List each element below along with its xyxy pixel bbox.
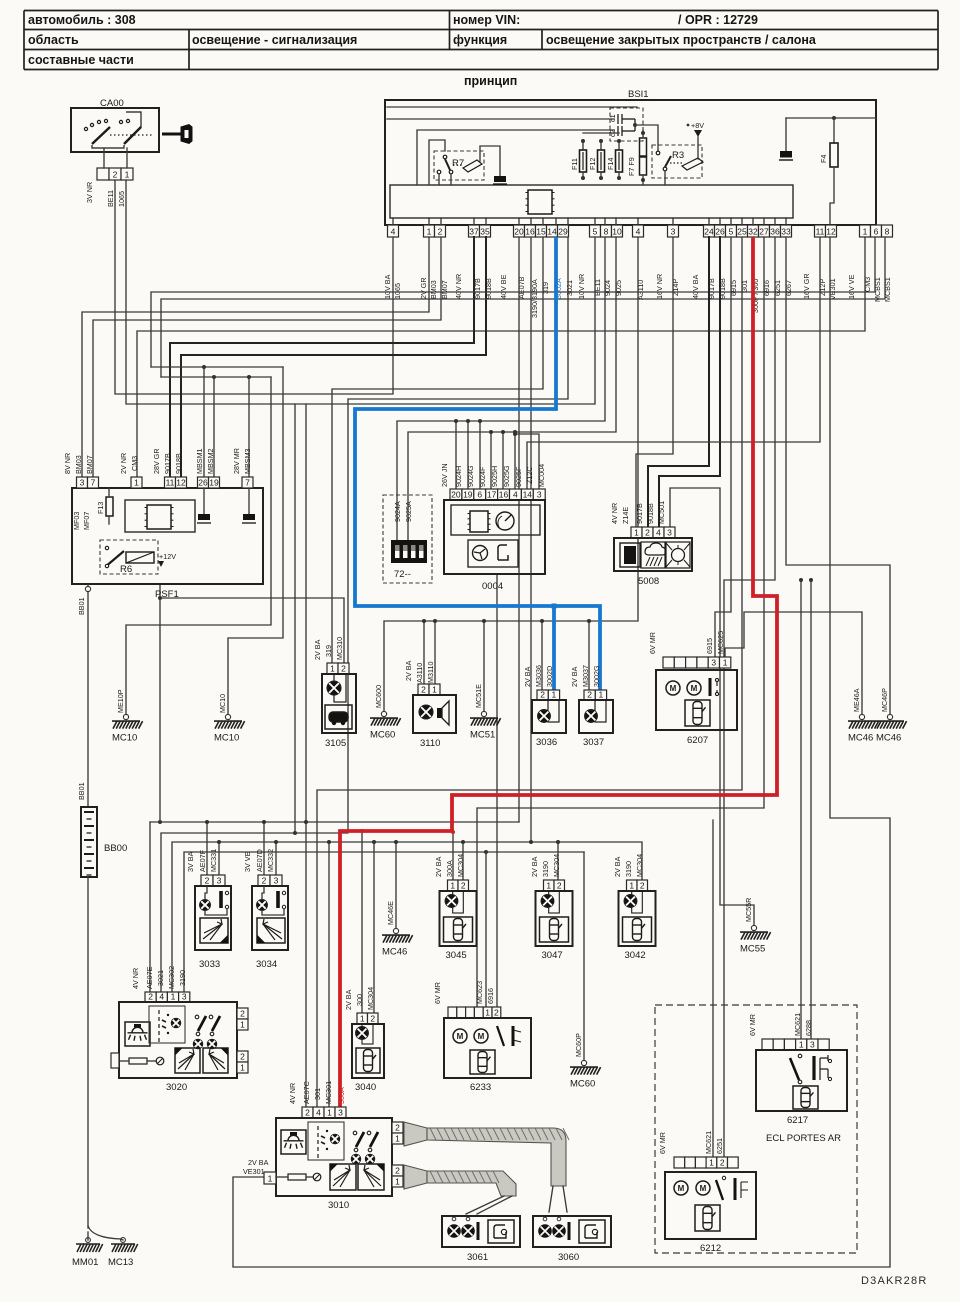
svg-text:2V NR: 2V NR <box>119 453 128 474</box>
svg-text:8: 8 <box>885 226 890 236</box>
ground MC51 <box>481 711 486 716</box>
svg-text:3: 3 <box>537 489 542 499</box>
svg-text:1: 1 <box>268 1173 273 1183</box>
svg-text:AE07F: AE07F <box>198 849 207 872</box>
5008 sun icon <box>666 542 690 568</box>
svg-text:F13: F13 <box>96 502 105 514</box>
5008 chip icon <box>620 543 640 567</box>
svg-text:BM03: BM03 <box>74 455 83 474</box>
svg-text:F11: F11 <box>570 158 579 170</box>
svg-text:5008: 5008 <box>638 576 659 587</box>
svg-text:составные части: составные части <box>28 53 134 67</box>
svg-text:Z12C: Z12C <box>525 466 534 484</box>
ground MC55 <box>751 925 756 930</box>
relay R3 in BSI1 <box>652 145 702 178</box>
svg-text:MC46: MC46 <box>382 947 407 958</box>
relay R6 in PSF1 <box>100 540 158 574</box>
svg-text:10: 10 <box>612 226 622 236</box>
svg-text:12: 12 <box>176 477 186 487</box>
svg-text:1: 1 <box>799 1039 804 1049</box>
ignition switch CA00 <box>71 108 159 152</box>
svg-text:6207: 6207 <box>687 735 708 746</box>
svg-text:2: 2 <box>494 1007 499 1017</box>
svg-text:M: M <box>670 684 677 693</box>
svg-text:1: 1 <box>134 477 139 487</box>
motor in 6207 <box>687 681 701 695</box>
svg-text:2: 2 <box>113 169 118 179</box>
svg-text:2: 2 <box>370 1013 375 1023</box>
motor in 6207 <box>666 681 680 695</box>
svg-text:3: 3 <box>711 657 716 667</box>
svg-text:2: 2 <box>640 880 645 890</box>
svg-text:F14: F14 <box>606 158 615 170</box>
svg-text:MF03: MF03 <box>72 512 81 530</box>
svg-text:16: 16 <box>525 226 535 236</box>
wire BM07: BSI pin 2 to PSF1 pin 7 <box>93 237 441 477</box>
svg-text:6: 6 <box>874 226 879 236</box>
svg-text:1: 1 <box>485 1007 490 1017</box>
svg-text:3040: 3040 <box>355 1082 376 1093</box>
svg-text:Z14E: Z14E <box>621 507 630 524</box>
svg-text:3110: 3110 <box>420 738 440 749</box>
svg-text:1: 1 <box>599 689 604 699</box>
svg-text:/ OPR : 12729: / OPR : 12729 <box>678 13 758 27</box>
svg-text:2: 2 <box>461 880 466 890</box>
wire MBSM1 bus <box>151 366 283 368</box>
svg-text:20: 20 <box>514 226 524 236</box>
wire CM3: BSI to PSF1 pin 1 <box>137 237 865 477</box>
svg-text:3002G: 3002G <box>592 665 601 687</box>
switch area 3020 <box>149 1006 185 1043</box>
svg-text:20: 20 <box>451 489 461 499</box>
svg-text:2V BA: 2V BA <box>434 856 443 877</box>
svg-text:33: 33 <box>781 226 791 236</box>
svg-text:4: 4 <box>391 226 396 236</box>
svg-text:F12: F12 <box>588 158 597 170</box>
svg-text:2: 2 <box>240 1051 245 1061</box>
svg-text:24: 24 <box>704 226 714 236</box>
wire MC302/MC301 bus <box>172 842 642 992</box>
ground MC10 second <box>225 714 230 719</box>
svg-text:M3036: M3036 <box>534 665 543 687</box>
svg-text:MC46E: MC46E <box>386 901 395 925</box>
svg-text:2: 2 <box>557 880 562 890</box>
svg-text:2: 2 <box>262 875 267 885</box>
svg-text:1: 1 <box>395 1133 400 1143</box>
svg-text:9025A: 9025A <box>404 501 413 522</box>
svg-text:M: M <box>700 1184 707 1193</box>
svg-text:72--: 72-- <box>394 569 411 580</box>
svg-text:3034: 3034 <box>256 959 277 970</box>
wire MC625: 6207 to ground MC46 <box>725 612 862 714</box>
ground MC60 <box>381 711 386 716</box>
svg-text:MC46: MC46 <box>876 733 901 744</box>
red wire 300F/300: BSI pin 32 to 3010 pin 3 <box>340 237 777 1107</box>
svg-text:2: 2 <box>240 1008 245 1018</box>
svg-text:3: 3 <box>338 1107 343 1117</box>
svg-text:28V GR: 28V GR <box>152 448 161 474</box>
wire 301: BSI pin 25 to 3010 <box>317 237 742 1107</box>
svg-text:R6: R6 <box>120 564 132 575</box>
spot lamp 3034 <box>258 875 270 886</box>
svg-text:3: 3 <box>274 875 279 885</box>
rear lock unit 6212 <box>674 1157 685 1168</box>
svg-text:3: 3 <box>810 1039 815 1049</box>
under-bonnet fuse box PSF1 <box>72 488 263 584</box>
svg-text:MC004: MC004 <box>537 464 546 487</box>
wire MC623: 6233 to ground MC60P <box>485 852 487 1007</box>
svg-text:6915: 6915 <box>705 638 714 654</box>
blue wire branch 3002D to 3036 <box>552 606 556 690</box>
svg-text:9018B: 9018B <box>646 503 655 524</box>
svg-text:7: 7 <box>91 477 96 487</box>
svg-text:BSI1: BSI1 <box>628 89 649 100</box>
svg-text:10V NR: 10V NR <box>577 274 586 299</box>
svg-text:MC623: MC623 <box>475 981 484 1004</box>
ground MC46E <box>393 928 398 933</box>
svg-text:VE301: VE301 <box>243 1167 265 1176</box>
svg-text:26: 26 <box>715 226 725 236</box>
svg-text:3190: 3190 <box>178 970 187 986</box>
wire BB01 PSF1 to battery unit BB00 <box>85 586 90 591</box>
motor in 6212 <box>674 1181 688 1195</box>
svg-text:9024F: 9024F <box>478 466 487 487</box>
svg-text:PSF1: PSF1 <box>155 589 179 600</box>
wire 3190: BSI pin 16 riser <box>530 237 532 842</box>
svg-text:6: 6 <box>477 489 482 499</box>
front courtesy unit 3020 <box>145 992 156 1002</box>
svg-text:BB01: BB01 <box>77 597 86 615</box>
wire 300A branch to 3045 <box>452 833 454 880</box>
svg-text:R3: R3 <box>672 150 684 161</box>
svg-text:2V BA: 2V BA <box>344 989 353 1010</box>
rear courtesy unit 3010 <box>302 1107 313 1118</box>
svg-text:MC332: MC332 <box>266 849 275 872</box>
svg-text:1: 1 <box>552 689 557 699</box>
boot lamp 3040 <box>357 1013 368 1024</box>
svg-text:функция: функция <box>453 33 507 47</box>
+8V supply <box>687 124 690 127</box>
svg-text:17: 17 <box>487 489 497 499</box>
svg-text:319: 319 <box>324 645 333 657</box>
svg-text:MC51: MC51 <box>470 730 495 741</box>
svg-text:2: 2 <box>438 226 443 236</box>
svg-text:1: 1 <box>629 880 634 890</box>
wire CA00 to connector <box>126 148 128 168</box>
svg-text:MC46P: MC46P <box>880 688 889 712</box>
svg-text:MC55: MC55 <box>740 944 765 955</box>
svg-text:2: 2 <box>587 689 592 699</box>
svg-text:3047: 3047 <box>542 950 563 961</box>
svg-text:MC304: MC304 <box>635 854 644 877</box>
wire 3021: BSI pin 29 to 3020 <box>161 237 568 992</box>
PSF1 pin connectors <box>77 477 88 488</box>
svg-text:8: 8 <box>604 226 609 236</box>
wire MC004 run 0004 to 6233 <box>496 574 498 1007</box>
svg-text:освещение - сигнализация: освещение - сигнализация <box>192 33 357 47</box>
svg-text:16V VE: 16V VE <box>847 274 856 299</box>
wire F4 to pin 12 <box>830 167 834 225</box>
svg-text:35: 35 <box>480 226 490 236</box>
svg-text:MC60: MC60 <box>370 730 395 741</box>
svg-text:2: 2 <box>395 1122 400 1132</box>
svg-text:2V BA: 2V BA <box>523 666 532 687</box>
svg-text:3: 3 <box>217 875 222 885</box>
wire BM03: BSI pin 1 to PSF1 pin 3 <box>82 237 429 477</box>
beam icon 3034 <box>257 918 285 943</box>
svg-text:M: M <box>457 1032 464 1041</box>
svg-text:6212: 6212 <box>700 1243 721 1254</box>
svg-text:9018B: 9018B <box>174 453 183 474</box>
svg-text:BE11: BE11 <box>106 190 115 207</box>
motor in 6233 <box>453 1029 467 1043</box>
lamp 3036 <box>537 690 548 700</box>
svg-text:2: 2 <box>305 1107 310 1117</box>
svg-text:10V BA: 10V BA <box>383 274 392 299</box>
svg-text:9025F: 9025F <box>514 466 523 487</box>
svg-text:MC46: MC46 <box>848 733 873 744</box>
svg-text:3010: 3010 <box>328 1200 349 1211</box>
lamp 3037 <box>584 690 595 700</box>
svg-text:6V MR: 6V MR <box>433 982 442 1004</box>
ground MC10 left <box>123 714 128 719</box>
svg-text:40V BE: 40V BE <box>499 274 508 299</box>
svg-text:2V GR: 2V GR <box>419 277 428 299</box>
svg-text:40V BA: 40V BA <box>691 274 700 299</box>
svg-text:2: 2 <box>395 1165 400 1175</box>
BSI1 internal connector bar <box>390 185 793 218</box>
svg-text:2V BA: 2V BA <box>570 666 579 687</box>
wire 9017B b to 5008 <box>648 237 709 527</box>
svg-text:1: 1 <box>327 1107 332 1117</box>
svg-text:2: 2 <box>720 1157 725 1167</box>
svg-text:15: 15 <box>536 226 546 236</box>
svg-text:25: 25 <box>737 226 747 236</box>
svg-text:37: 37 <box>469 226 479 236</box>
svg-text:4: 4 <box>513 489 518 499</box>
BSI1 bar-to-pin stubs <box>393 218 786 225</box>
wire AE07B: BSI pin 20 down to lamp bus <box>518 237 520 822</box>
svg-text:19: 19 <box>463 489 473 499</box>
svg-text:4V NR: 4V NR <box>288 1083 297 1104</box>
car icon 6207 <box>693 702 706 725</box>
fuses F7 F9 <box>640 138 647 156</box>
svg-text:F4: F4 <box>819 155 828 163</box>
capacitors C1 C2 <box>610 108 643 141</box>
svg-text:14: 14 <box>523 489 533 499</box>
wire Z14E: BSI pin 3 to 5008 <box>636 237 673 527</box>
svg-text:3: 3 <box>182 991 187 1001</box>
svg-text:+12V: +12V <box>159 552 176 561</box>
svg-text:3V BA: 3V BA <box>186 851 195 872</box>
wire MC310: PSF1 to 3105 <box>159 584 161 822</box>
svg-text:6V MR: 6V MR <box>748 1014 757 1036</box>
svg-text:M3037: M3037 <box>581 665 590 687</box>
spot icon 3010 a <box>330 1164 356 1190</box>
harness ribbon 3010 to 3060 <box>404 1122 566 1186</box>
svg-text:MBSM2: MBSM2 <box>206 448 215 474</box>
svg-text:1: 1 <box>863 226 868 236</box>
svg-text:28V MR: 28V MR <box>232 448 241 474</box>
svg-text:2: 2 <box>421 684 426 694</box>
central locking unit 6233 <box>448 1007 457 1018</box>
IC in 0004 <box>470 511 488 532</box>
svg-text:1065: 1065 <box>117 191 126 207</box>
svg-text:MM01: MM01 <box>72 1257 98 1268</box>
central locking unit 6207 <box>663 657 674 668</box>
DIP switch <box>391 540 427 563</box>
svg-text:26V JN: 26V JN <box>440 463 449 487</box>
wire AE07 bus <box>150 821 519 823</box>
svg-text:3190: 3190 <box>624 861 633 877</box>
0004 lower icons <box>468 540 518 567</box>
svg-text:MC60P: MC60P <box>574 1033 583 1057</box>
svg-text:2: 2 <box>205 875 210 885</box>
key symbol <box>162 125 192 144</box>
svg-text:MC10: MC10 <box>218 694 227 713</box>
wire MC621 to 6212 <box>712 820 714 1157</box>
svg-text:MC13: MC13 <box>108 1257 133 1268</box>
BSI1 internal wires <box>387 106 637 108</box>
svg-text:номер VIN:: номер VIN: <box>453 13 520 27</box>
svg-text:11: 11 <box>816 226 825 236</box>
svg-text:1: 1 <box>240 1062 245 1072</box>
svg-text:1: 1 <box>723 657 728 667</box>
svg-text:автомобиль : 308: автомобиль : 308 <box>28 13 136 27</box>
svg-text:36: 36 <box>770 226 780 236</box>
wire 1065: CA00 to BSI pin 4 <box>115 180 393 394</box>
svg-text:+8V: +8V <box>691 121 704 130</box>
wire VE301: BSI pin 12 around to 3010 <box>233 237 890 1267</box>
wire MCBS1 b <box>161 237 885 377</box>
spot lamp 3033 <box>201 875 213 886</box>
svg-text:M: M <box>691 684 698 693</box>
svg-text:MC302: MC302 <box>167 966 176 989</box>
body controller BSI1 <box>385 100 876 225</box>
svg-text:8V NR: 8V NR <box>63 453 72 474</box>
svg-text:26: 26 <box>198 477 208 487</box>
wire A3110: BSI to 3110 bus <box>384 237 638 711</box>
svg-text:A3110: A3110 <box>415 663 424 683</box>
wire 9024: BSI pin 8 to display 0004 <box>397 237 605 540</box>
IC inside BSI1 bar <box>528 190 552 214</box>
svg-text:9024A: 9024A <box>393 501 402 522</box>
svg-text:0004: 0004 <box>482 581 503 592</box>
svg-text:MC10: MC10 <box>214 733 239 744</box>
wire BE11: CA00 to BSI pin 5 <box>126 180 595 404</box>
svg-text:1: 1 <box>240 1019 245 1029</box>
connector of CA00 <box>97 168 109 180</box>
dome lamp icon 3020 <box>125 1022 150 1046</box>
svg-text:3021: 3021 <box>156 970 165 986</box>
svg-text:1: 1 <box>450 880 455 890</box>
ground MC46 a <box>859 714 864 719</box>
diagnostic connector 72 (dashed) <box>383 495 432 583</box>
fuse F13 in PSF1 <box>106 497 113 516</box>
svg-text:1: 1 <box>546 880 551 890</box>
svg-text:D3AKR28R: D3AKR28R <box>861 1275 927 1287</box>
wire MC501: 5008 to ground MC55 <box>670 488 754 925</box>
svg-text:1: 1 <box>427 226 432 236</box>
sill lamp 3061 <box>442 1216 520 1247</box>
svg-text:M3110: M3110 <box>426 662 435 683</box>
svg-text:300A: 300A <box>445 860 454 877</box>
wire 3190 to 3020 pin 3 <box>184 852 584 992</box>
rear door lock unit 6217 <box>762 1039 773 1050</box>
PSF1 internal grounds <box>203 488 205 514</box>
3020 right connectors <box>237 1008 248 1019</box>
svg-text:1: 1 <box>171 991 176 1001</box>
switch in 6207 <box>709 678 712 696</box>
svg-text:1: 1 <box>432 684 437 694</box>
svg-text:6V MR: 6V MR <box>658 1132 667 1154</box>
wire Z12C: BSI pin 11 to 0004 <box>527 237 820 489</box>
spot icon 3010 b <box>358 1164 384 1190</box>
fuse F4 <box>786 117 876 119</box>
svg-text:2V BA: 2V BA <box>613 856 622 877</box>
BSI1 pin connectors <box>388 225 399 237</box>
wire 319: BSI pin 15 to 3105 <box>332 237 543 663</box>
svg-text:MC304: MC304 <box>366 987 375 1010</box>
display unit 0004 <box>450 489 462 500</box>
svg-text:9025G: 9025G <box>502 465 511 487</box>
svg-text:2V BA: 2V BA <box>404 660 413 681</box>
dashed area ECL PORTES AR <box>655 1005 857 1253</box>
svg-text:MC501: MC501 <box>657 501 666 524</box>
svg-text:1: 1 <box>709 1157 714 1167</box>
svg-text:MC304: MC304 <box>552 854 561 877</box>
svg-text:BM03: BM03 <box>429 280 438 299</box>
svg-text:AE07D: AE07D <box>255 849 264 872</box>
svg-text:MC621: MC621 <box>793 1013 802 1036</box>
svg-text:3060: 3060 <box>558 1252 579 1263</box>
speaker icon <box>437 708 442 718</box>
svg-text:1: 1 <box>125 169 130 179</box>
header table <box>24 11 938 70</box>
svg-text:область: область <box>28 33 79 47</box>
svg-text:принцип: принцип <box>464 74 517 88</box>
beam icon 3033 <box>200 918 228 943</box>
svg-text:1: 1 <box>634 527 639 537</box>
svg-text:7: 7 <box>245 477 250 487</box>
svg-text:12: 12 <box>826 226 836 236</box>
svg-text:MC600: MC600 <box>374 685 383 708</box>
svg-text:2V BA: 2V BA <box>313 639 322 660</box>
sill lamp 3060 <box>533 1216 611 1247</box>
svg-text:3002D: 3002D <box>545 666 554 687</box>
svg-text:9024G: 9024G <box>466 465 475 487</box>
svg-text:AE07E: AE07E <box>145 966 154 989</box>
svg-text:MC301: MC301 <box>324 1081 333 1104</box>
wire 6267 to ground MC46 <box>786 237 890 714</box>
svg-text:2V BA: 2V BA <box>530 856 539 877</box>
buzzer 3110 <box>418 684 429 695</box>
svg-text:CM3: CM3 <box>130 456 139 471</box>
ground MC46 b <box>887 714 892 719</box>
wire 9018B: BSI pin 35 to PSF1 pin 12 <box>181 237 486 477</box>
svg-text:3033: 3033 <box>199 959 220 970</box>
motor in 6212 <box>696 1181 710 1195</box>
svg-text:4: 4 <box>656 527 661 537</box>
svg-text:16: 16 <box>499 489 509 499</box>
svg-text:3045: 3045 <box>446 950 467 961</box>
svg-text:MC310: MC310 <box>335 637 344 660</box>
harness ribbon 3010 to 3061 <box>404 1165 516 1196</box>
wire 9018B b to 5008 <box>659 237 720 527</box>
motor in 6233 <box>474 1029 488 1043</box>
ground MM01 <box>76 1244 103 1252</box>
battery unit BB00 <box>81 807 97 877</box>
